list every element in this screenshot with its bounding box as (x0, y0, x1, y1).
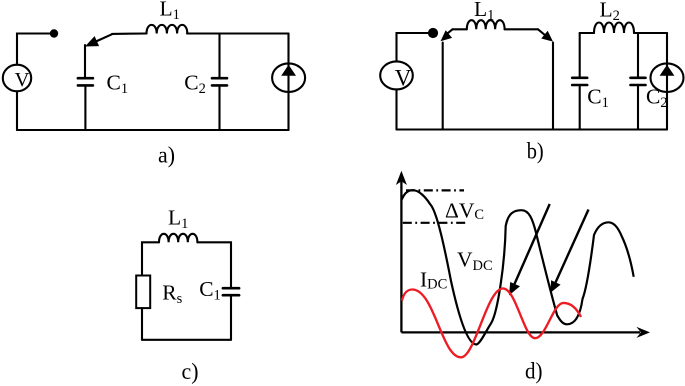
capacitor C2 branch wire top (panel a) (218, 34, 220, 78)
svg-text:a): a) (158, 142, 175, 168)
current source arrow (panel a) (281, 65, 296, 76)
inductor L2 (panel b) (594, 23, 634, 34)
resistor Rs body (panel c) (136, 276, 150, 309)
current source circle (panel b) (651, 63, 684, 92)
wire L1 to top right corner (panel c) (197, 242, 231, 287)
switch S1 branch wire (panel b) (442, 43, 444, 130)
wire V bottom (panel b) (395, 89, 397, 129)
capacitor C2 branch wire bottom (panel b) (637, 86, 639, 129)
switch S2 branch wire (panel b) (552, 43, 554, 130)
capacitor C2 branch wire bottom (panel a) (218, 87, 220, 130)
wire V bottom (panel a) (16, 91, 18, 130)
V_DC curve (panel d) (402, 190, 634, 344)
wire V top to node (panel a) (17, 34, 50, 65)
wire L2 loop top (panel b) (580, 32, 594, 34)
svg-text:c): c) (182, 359, 199, 385)
wire top left corner to L1 (panel c) (142, 242, 159, 275)
wire L2 to current source (panel b) (634, 32, 667, 34)
switch S1 arrowhead (panel b) (441, 30, 453, 41)
switch S1 blade (panel a) (97, 34, 112, 41)
capacitor C1 plates (panel b) (572, 78, 587, 85)
arrow 2 shaft (panel d) (556, 210, 589, 283)
capacitor C1 branch wire top (panel a) (84, 45, 86, 77)
inductor L1 (panel c) (159, 234, 197, 242)
capacitor C2 plates (panel b) (631, 78, 646, 85)
arrow 1 shaft (panel d) (515, 204, 550, 284)
capacitor C2 plates (panel a) (212, 78, 227, 85)
capacitor C1 branch wire bottom (panel b) (579, 86, 581, 129)
svg-text:V: V (395, 65, 412, 90)
dash-dot line upper (panel d) (406, 189, 464, 191)
I_DC curve red (panel d) (402, 288, 581, 357)
switch S1 arrowhead (panel a) (85, 36, 99, 46)
wire blade corner to L1 (panel b) (453, 28, 467, 30)
capacitor C1 branch wire bottom (panel a) (84, 87, 86, 130)
wire L1 to current source (panel a) (187, 32, 289, 34)
wire V top to node (panel b) (397, 33, 429, 61)
svg-text:V: V (15, 69, 30, 91)
wire switch blade to L1 (panel a) (112, 32, 147, 35)
node dot (panel a) (50, 29, 58, 37)
svg-text:b): b) (527, 139, 544, 165)
inductor L1 (panel b) (467, 20, 505, 29)
voltage source V (panel a) (3, 65, 31, 92)
y axis arrowhead (panel d) (396, 171, 407, 185)
svg-text:d): d) (525, 359, 543, 385)
current source branch wire (panel a) (287, 34, 289, 131)
bottom wire (panel c) (142, 339, 231, 341)
arrow 1 head (panel d) (509, 282, 520, 295)
capacitor C1 plates (panel c) (223, 288, 239, 295)
x axis arrowhead (panel d) (637, 327, 651, 338)
switch S2 blade (panel b) (538, 29, 546, 35)
current source arrow (panel b) (660, 65, 675, 76)
wire Rs bottom (panel c) (141, 308, 143, 340)
switch S1 blade (panel b) (445, 29, 453, 36)
bottom wire (panel b) (397, 128, 668, 130)
arrow 2 head (panel d) (550, 280, 560, 293)
capacitor C1 wire bottom (panel c) (230, 297, 232, 340)
switch S2 arrowhead (panel b) (541, 31, 553, 42)
bottom wire (panel a) (17, 129, 289, 131)
dash-dot line lower (panel d) (403, 222, 466, 224)
capacitor C1 branch wire top (panel b) (579, 33, 581, 77)
node dot (panel b) (428, 28, 438, 38)
wire L1 to switch S2 (panel b) (505, 28, 538, 30)
y axis (panel d) (400, 176, 402, 332)
current source branch wire (panel b) (666, 33, 668, 130)
capacitor C2 branch wire top (panel b) (637, 33, 639, 77)
current source circle (panel a) (272, 63, 305, 92)
inductor L1 (panel a) (147, 25, 188, 34)
x axis (panel d) (401, 331, 640, 333)
voltage source V (panel b) (380, 61, 413, 89)
capacitor C1 plates (panel a) (78, 78, 93, 85)
